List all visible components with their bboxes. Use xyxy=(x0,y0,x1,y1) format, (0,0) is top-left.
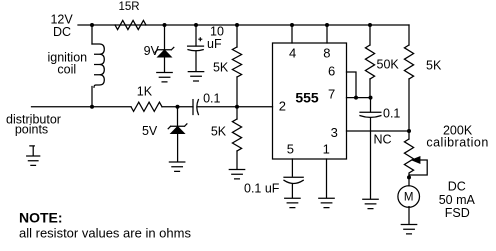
svg-text:NOTE:: NOTE: xyxy=(19,210,63,226)
wire pin 4 supply xyxy=(291,25,293,43)
node pin3/5K right xyxy=(407,129,411,133)
svg-text:8: 8 xyxy=(323,46,330,61)
svg-text:0.1: 0.1 xyxy=(383,107,400,121)
wire pin 5 xyxy=(291,159,293,176)
ground (meter) xyxy=(401,225,416,234)
diode zener 5V xyxy=(168,124,187,162)
svg-text:50K: 50K xyxy=(377,58,400,72)
resistor 50K xyxy=(365,45,374,79)
ground (9V zener) xyxy=(157,73,172,82)
svg-text:0.1: 0.1 xyxy=(203,91,220,105)
IC pin labels xyxy=(279,46,338,157)
capacitor 0.1 pin7 xyxy=(360,98,381,118)
wire pin 7 xyxy=(347,97,371,99)
svg-text:DC: DC xyxy=(448,180,466,194)
inductor ignition coil xyxy=(92,44,104,87)
svg-text:1: 1 xyxy=(323,142,330,157)
svg-text:5K: 5K xyxy=(213,61,229,75)
svg-text:3: 3 xyxy=(331,125,338,140)
svg-text:1K: 1K xyxy=(137,85,153,99)
svg-text:9V: 9V xyxy=(144,44,160,58)
wire 50K bottom to pin7 line xyxy=(369,79,371,98)
wire coil branch top xyxy=(91,25,93,44)
capacitor 0.1 series xyxy=(193,100,198,115)
node points/coil xyxy=(90,105,94,109)
ground (5V zener) xyxy=(169,162,184,171)
node rail/pin8 xyxy=(325,23,329,27)
resistor 5K right xyxy=(404,45,413,79)
wire 5K first branch top xyxy=(236,25,238,47)
svg-text:555: 555 xyxy=(295,90,319,106)
resistor 15R xyxy=(115,20,146,29)
node rail/50K xyxy=(368,23,372,27)
wire 5V zener branch xyxy=(177,107,179,126)
wire 5K lower to ground xyxy=(236,151,238,169)
svg-text:FSD: FSD xyxy=(445,206,470,220)
ground (NC line) xyxy=(363,199,378,208)
wire distributor points line xyxy=(32,106,132,108)
resistor 5K (from rail to pin2 line) xyxy=(232,47,241,77)
svg-text:5V: 5V xyxy=(142,124,158,138)
wire 1K to series cap xyxy=(162,106,193,108)
node rail/5K xyxy=(235,23,239,27)
node rail/coil xyxy=(90,23,94,27)
meter M circle xyxy=(398,186,420,208)
resistor 1K xyxy=(131,102,162,111)
wire 5K right bottom to pin3 node xyxy=(408,79,410,131)
svg-text:7: 7 xyxy=(328,87,335,102)
svg-text:0.1 uF: 0.1 uF xyxy=(244,181,280,195)
node rail/10uF xyxy=(194,23,198,27)
wire 9V zener branch xyxy=(164,25,166,50)
IC 555 box xyxy=(273,43,347,159)
node pin7/pin6 xyxy=(354,96,358,100)
capacitor 10uF polarized xyxy=(188,38,204,71)
svg-text:NC: NC xyxy=(374,133,392,147)
resistor 5K lower xyxy=(232,119,241,151)
wire pin 6 xyxy=(347,72,357,98)
svg-text:all resistor values are in ohm: all resistor values are in ohms xyxy=(19,226,191,241)
node pot bottom xyxy=(407,175,411,179)
wire NC vertical to ground xyxy=(370,118,372,199)
svg-text:M: M xyxy=(404,192,414,204)
node rail/pin4 xyxy=(290,23,294,27)
potentiometer 200K calibration xyxy=(404,131,427,178)
wire pin 8 supply xyxy=(326,25,328,43)
node pin7/50K xyxy=(369,96,373,100)
node dots xyxy=(90,23,411,179)
svg-text:2: 2 xyxy=(279,99,286,114)
wire pin 1 xyxy=(326,159,328,198)
svg-text:5K: 5K xyxy=(426,59,442,73)
svg-text:5K: 5K xyxy=(211,125,227,139)
svg-text:calibration: calibration xyxy=(426,136,488,150)
wire meter to ground xyxy=(408,207,410,224)
ground (pin1) xyxy=(319,198,334,207)
node points/5V xyxy=(176,105,180,109)
note block xyxy=(19,210,191,241)
svg-text:15R: 15R xyxy=(118,1,139,13)
wire pot to meter xyxy=(408,178,410,186)
wire coil branch bottom xyxy=(91,87,93,107)
svg-text:points: points xyxy=(15,123,48,137)
capacitor 0.1uF pin5 xyxy=(284,177,303,198)
svg-text:6: 6 xyxy=(328,64,335,79)
wire pin 3 xyxy=(347,130,410,132)
svg-text:4: 4 xyxy=(289,46,296,61)
wire 50K top xyxy=(369,25,371,45)
node points/5K xyxy=(235,105,239,109)
svg-text:uF: uF xyxy=(207,37,222,51)
ground (pin5 cap) xyxy=(285,198,300,207)
svg-text:DC: DC xyxy=(53,25,71,39)
wire series cap to pin 2 xyxy=(197,106,272,108)
wire right column top (rail corner down to 5K) xyxy=(408,25,410,45)
svg-text:5: 5 xyxy=(287,142,294,157)
svg-text:50 mA: 50 mA xyxy=(439,193,476,207)
wire 10uF branch xyxy=(195,25,197,46)
ground (10uF) xyxy=(188,72,203,81)
node rail/9V xyxy=(163,23,167,27)
ground (5K lower) xyxy=(229,170,244,179)
diode zener 9V xyxy=(155,47,174,72)
wire top rail 12V xyxy=(78,24,409,26)
ground (distributor points, floating) xyxy=(27,146,40,166)
wire 5K first branch bottom xyxy=(236,77,238,107)
svg-text:coil: coil xyxy=(57,63,76,77)
wire 5K second branch top xyxy=(236,107,238,119)
